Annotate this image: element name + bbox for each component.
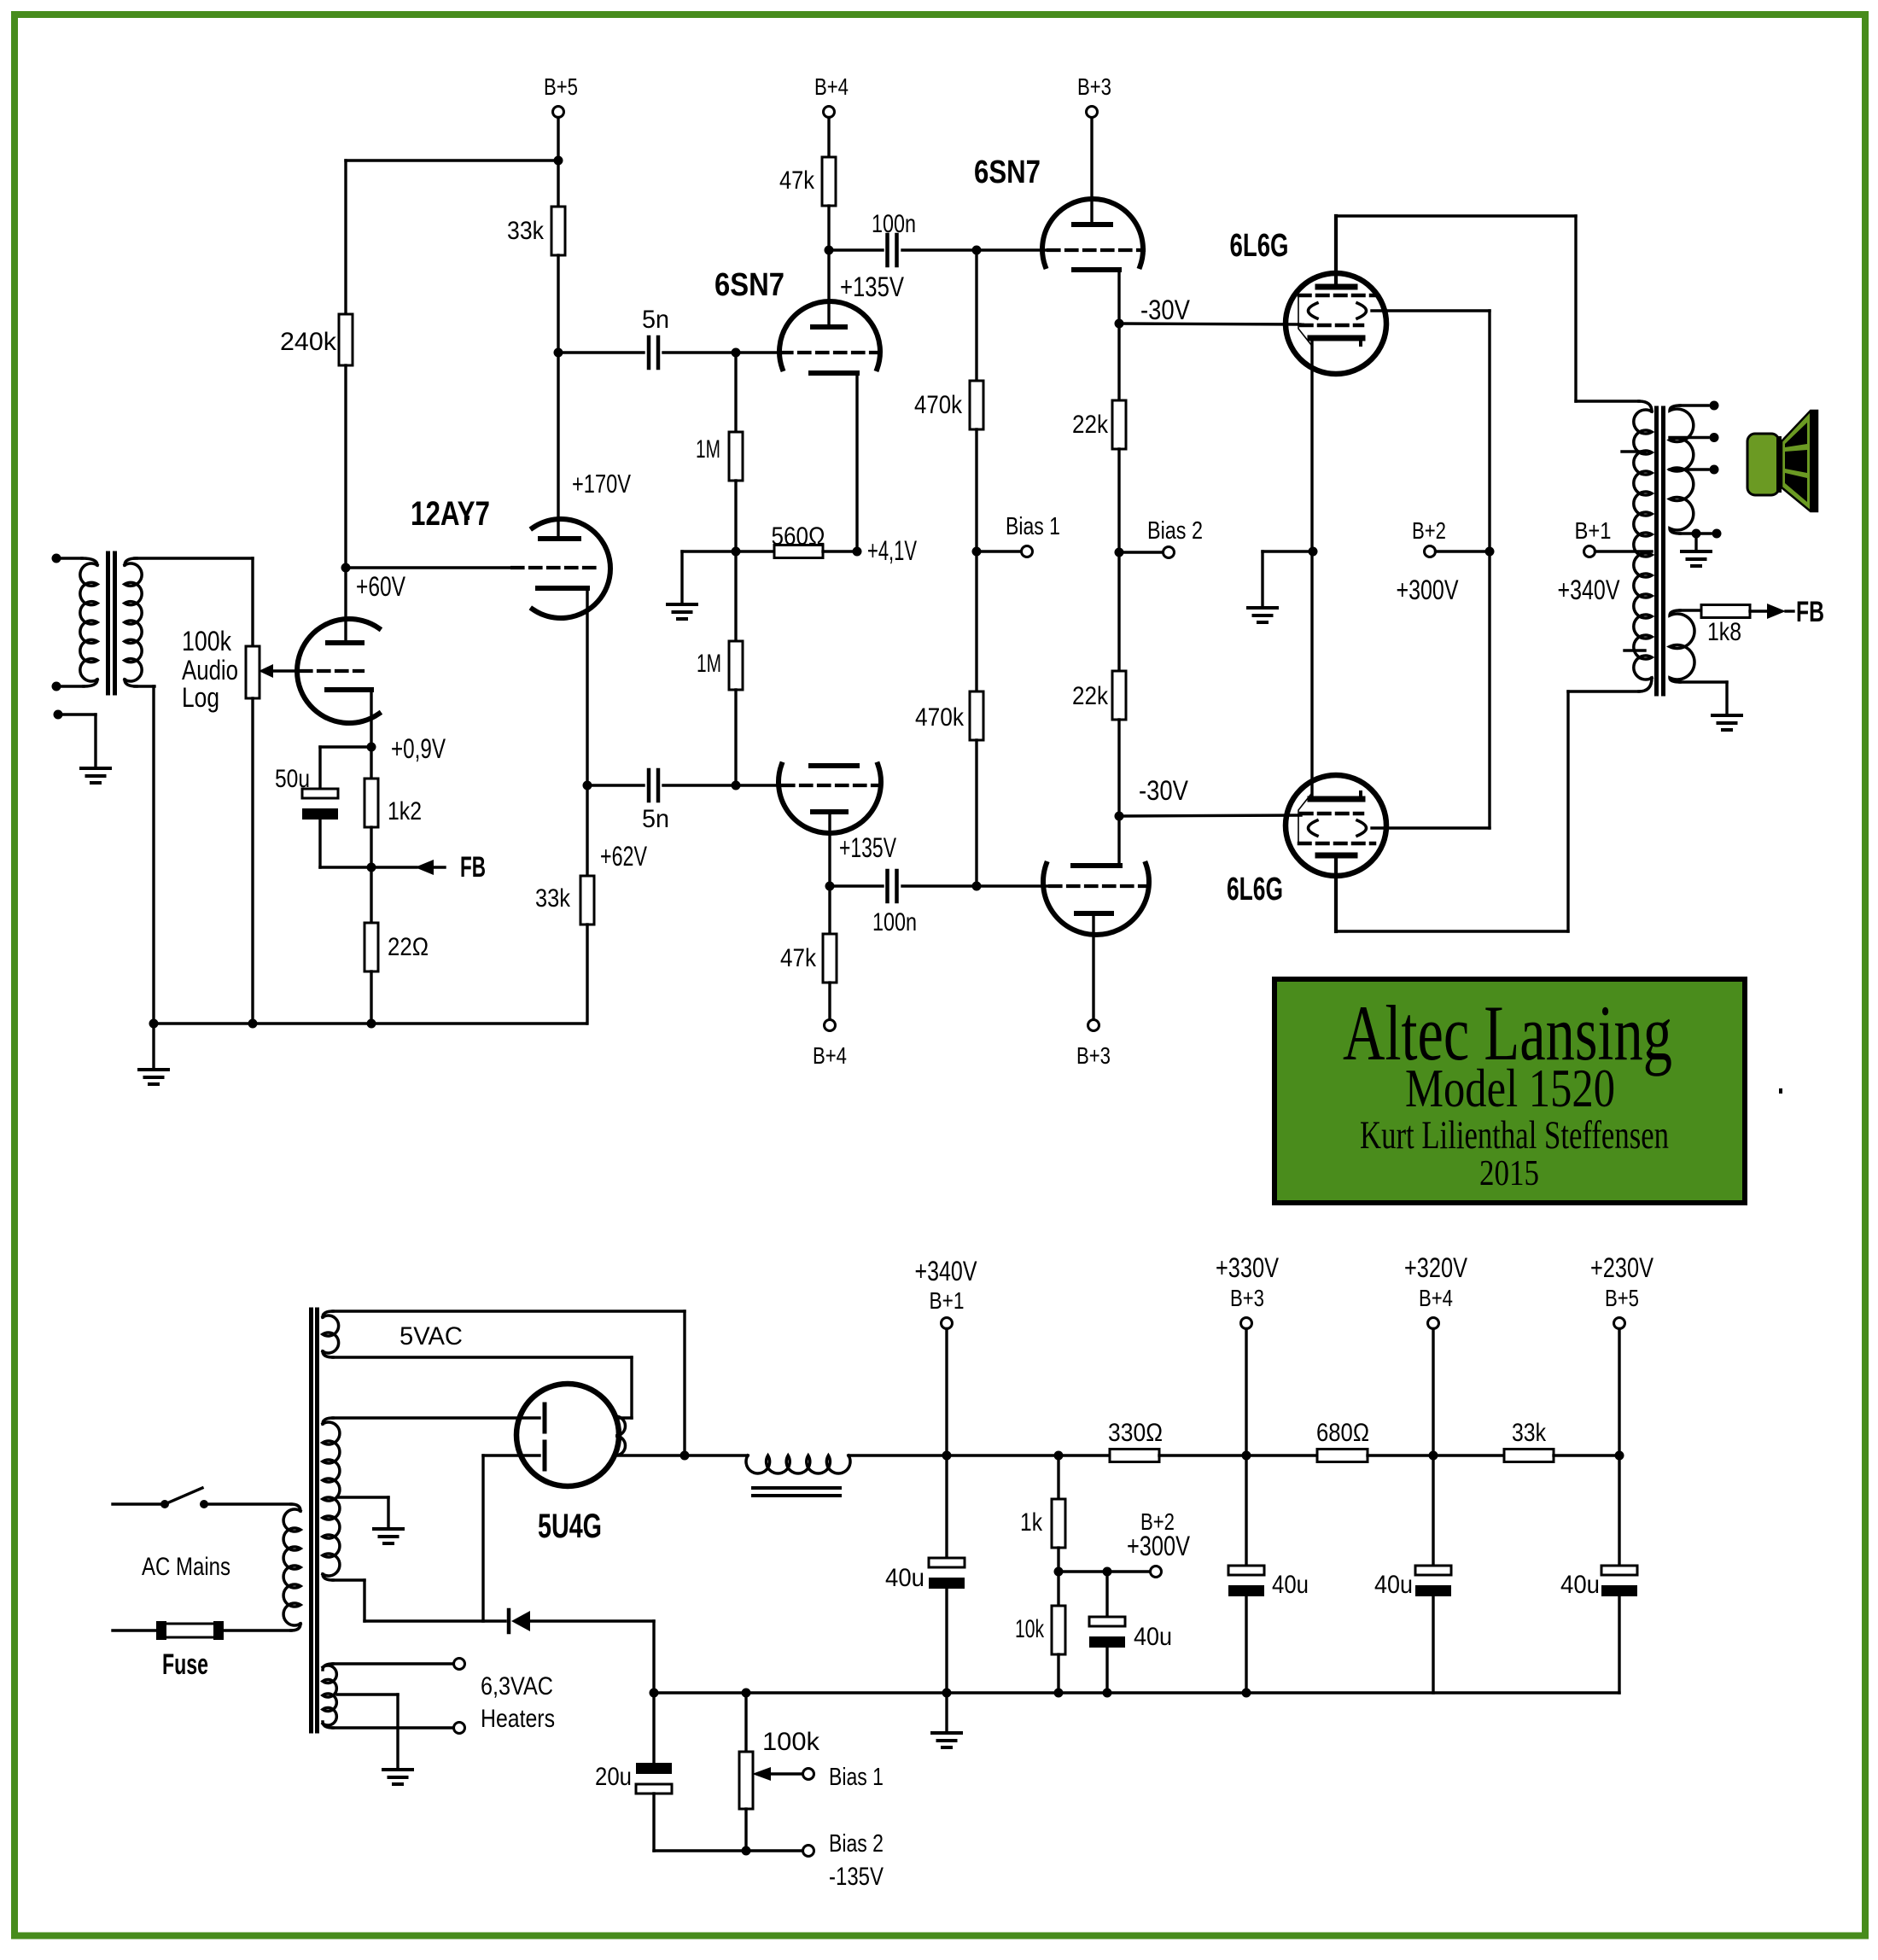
terminal B+3 (bottom) <box>1076 1020 1111 1070</box>
junction pot bottom/bias2 <box>742 1846 751 1856</box>
svg-text:B+3: B+3 <box>1077 73 1111 100</box>
svg-text:6SN7: 6SN7 <box>714 267 784 303</box>
wire cathode to ground <box>1263 551 1313 608</box>
junction plate/47k/100n <box>825 882 835 891</box>
svg-text:Model 1520: Model 1520 <box>1405 1058 1615 1118</box>
svg-text:Bias 2: Bias 2 <box>829 1830 884 1858</box>
junction +4,1V <box>853 547 862 557</box>
svg-text:B+4: B+4 <box>1419 1285 1453 1311</box>
capacitor 5n (lower coupling) <box>587 770 736 801</box>
wire B+ rail 1 <box>947 1454 1110 1456</box>
wire -30V lower <box>1119 815 1301 816</box>
svg-text:680Ω: 680Ω <box>1316 1419 1369 1447</box>
wire grid 6SN7d <box>977 884 1050 887</box>
wire 6L6G top screen tap <box>1372 309 1490 312</box>
junction B+5/rail <box>1615 1451 1624 1461</box>
svg-text:AC Mains: AC Mains <box>142 1553 230 1581</box>
terminal B+1 (PSU) <box>915 1256 978 1455</box>
junction 10k/ground rail <box>1054 1689 1064 1698</box>
capacitor 40u (B+4) <box>1415 1566 1451 1693</box>
ground (FB winding) <box>1712 714 1741 717</box>
svg-text:Bias 1: Bias 1 <box>1006 513 1060 540</box>
PSU ground rail <box>654 1691 1619 1694</box>
resistor 1k8 + FB arrow out <box>1701 604 1793 619</box>
svg-text:33k: 33k <box>1512 1419 1547 1447</box>
resistor 240k <box>339 160 353 568</box>
terminal B+2 (top) <box>1397 517 1490 605</box>
capacitor 40u (B+3) <box>1228 1566 1264 1693</box>
svg-text:12AY7: 12AY7 <box>411 495 490 533</box>
capacitor 40u (B+5) <box>1601 1566 1637 1693</box>
svg-text:5VAC: 5VAC <box>400 1322 463 1350</box>
wire rail to psu ground <box>945 1693 948 1733</box>
ground (preamp rail) <box>139 1068 168 1071</box>
junction pot top rail <box>742 1689 751 1698</box>
svg-text:1k8: 1k8 <box>1707 618 1741 646</box>
junction 5n/1M <box>732 348 741 358</box>
capacitor 100n (upper) <box>829 235 977 265</box>
ground (HV CT) <box>374 1527 403 1531</box>
junction 47k/100n/plate <box>825 246 834 255</box>
svg-text:5n: 5n <box>642 306 669 334</box>
wire to 6SN7b grid <box>736 784 783 786</box>
svg-text:47k: 47k <box>780 944 817 972</box>
pot wiper arrow to 12AY7 grid <box>259 664 300 678</box>
svg-text:2015: 2015 <box>1479 1154 1539 1193</box>
resistor 10k <box>1052 1572 1065 1693</box>
rectifier 5U4G <box>333 1384 626 1486</box>
junction B+5 node <box>554 156 563 166</box>
svg-text:22k: 22k <box>1072 682 1109 710</box>
svg-text:470k: 470k <box>914 391 963 419</box>
wire 5VAC bottom to filament <box>333 1356 632 1358</box>
junction B+4/rail <box>1429 1451 1438 1461</box>
svg-text:40u: 40u <box>1272 1571 1309 1599</box>
wire anode2 drop <box>481 1455 484 1621</box>
ground (input shield) <box>81 767 110 770</box>
svg-text:100k: 100k <box>182 626 232 656</box>
resistor 470k (lower) <box>970 551 983 886</box>
svg-text:Bias 2: Bias 2 <box>1147 517 1203 545</box>
svg-text:B+1: B+1 <box>1575 517 1612 544</box>
ground (PSU) <box>932 1731 961 1735</box>
power transformer 6.3VAC winding <box>323 1664 336 1728</box>
wire rail to ground <box>152 1024 155 1070</box>
junction B+2/screen bus <box>1485 547 1495 557</box>
svg-text:6L6G: 6L6G <box>1230 228 1289 264</box>
resistor 33k (12AY7b plate) <box>551 160 565 353</box>
input transformer T1 primary <box>52 554 98 691</box>
capacitor 50u cathode bypass <box>302 747 371 867</box>
terminal B+4 (top) <box>814 73 849 157</box>
svg-text:Bias 1: Bias 1 <box>829 1764 884 1791</box>
svg-text:22k: 22k <box>1072 411 1109 439</box>
capacitor 100n (lower) <box>830 871 977 901</box>
junction 40u/ground rail <box>942 1689 952 1698</box>
svg-text:B+5: B+5 <box>544 73 578 100</box>
svg-text:B+5: B+5 <box>1605 1285 1639 1311</box>
svg-text:22Ω: 22Ω <box>388 933 429 961</box>
terminal B+5 (PSU) <box>1590 1252 1654 1566</box>
svg-text:20u: 20u <box>595 1763 632 1791</box>
diode (bias rectifier) <box>509 1610 654 1632</box>
svg-text:B+2: B+2 <box>1412 517 1446 544</box>
resistor 22k (upper) <box>1112 324 1126 552</box>
svg-text:-135V: -135V <box>829 1863 884 1891</box>
wire 5n to 6SN7a grid <box>736 351 781 353</box>
svg-text:B+3: B+3 <box>1230 1285 1264 1311</box>
svg-text:+60V: +60V <box>356 571 406 602</box>
svg-text:1k2: 1k2 <box>388 797 422 825</box>
svg-text:47k: 47k <box>779 166 815 195</box>
ground (speaker common) <box>1682 550 1711 553</box>
terminal Bias 2 (top) <box>1119 517 1203 558</box>
svg-text:FB: FB <box>460 851 486 884</box>
svg-text:33k: 33k <box>507 217 545 245</box>
svg-text:100k: 100k <box>762 1728 820 1756</box>
resistor 22k (lower) <box>1112 552 1126 816</box>
svg-text:470k: 470k <box>915 703 965 732</box>
junction cathode ground top <box>1309 547 1318 557</box>
output transformer primary <box>1622 401 1652 691</box>
resistor 1k <box>1052 1455 1065 1572</box>
triode 6SN7b (middle lower) <box>779 764 881 886</box>
junction Bias2 node <box>1115 548 1124 557</box>
triode 12AY7a (input) <box>297 568 379 747</box>
svg-text:-30V: -30V <box>1140 295 1191 325</box>
wire screen bus <box>1488 551 1490 828</box>
terminal B+5 (top) <box>544 73 578 160</box>
junction 100n-lower/grid <box>972 882 982 891</box>
wire B+5 rail to 240k <box>346 159 558 161</box>
svg-text:B+4: B+4 <box>814 73 849 100</box>
capacitor 40u (B+1) <box>929 1455 965 1693</box>
svg-text:+330V: +330V <box>1216 1252 1280 1283</box>
svg-text:Audio: Audio <box>182 655 238 685</box>
svg-text:+340V: +340V <box>1558 575 1621 605</box>
svg-text:+230V: +230V <box>1590 1252 1654 1283</box>
wire filament output <box>615 1454 685 1456</box>
svg-text:40u: 40u <box>1560 1571 1600 1599</box>
ground rail (preamp) <box>154 1022 586 1024</box>
triode 6SN7d (right lower) <box>1043 864 1149 1020</box>
svg-text:Kurt Lilienthal Steffensen: Kurt Lilienthal Steffensen <box>1360 1113 1669 1158</box>
svg-text:B+3: B+3 <box>1076 1042 1111 1069</box>
svg-text:6SN7: 6SN7 <box>974 155 1041 190</box>
power transformer primary <box>283 1504 300 1630</box>
junction B+1/rail <box>942 1451 952 1461</box>
capacitor 40u (B+2) <box>1089 1572 1125 1693</box>
heater terminal A <box>333 1659 465 1670</box>
resistor 470k (upper) <box>970 250 983 551</box>
resistor 680ohm <box>1246 1450 1433 1462</box>
svg-text:100n: 100n <box>872 210 916 238</box>
junction Bias1 node <box>972 547 982 557</box>
svg-text:1M: 1M <box>697 650 721 678</box>
svg-text:6,3VAC: 6,3VAC <box>481 1672 553 1700</box>
junction 560ohm node <box>732 547 741 557</box>
ground (560ohm) <box>668 603 697 606</box>
power transformer HV winding <box>323 1418 340 1580</box>
svg-text:5n: 5n <box>642 805 669 833</box>
wire 5VAC top <box>333 1310 685 1312</box>
wire 6L6G top plate <box>1336 214 1576 217</box>
junction B+2 node (PSU) <box>1054 1567 1064 1577</box>
input shield terminal wire <box>54 710 96 769</box>
junction 33k/5n/plate <box>554 348 563 358</box>
capacitor 5n (upper coupling) <box>558 337 736 368</box>
pentode 6L6G (top) <box>1286 216 1386 551</box>
junction 12AY7b cathode/5n <box>583 781 592 790</box>
svg-text:+62V: +62V <box>600 841 647 872</box>
resistor 47k (lower) <box>823 886 837 1020</box>
svg-text:1k: 1k <box>1020 1508 1043 1537</box>
svg-text:+135V: +135V <box>839 832 896 863</box>
resistor 22ohm <box>365 867 378 1024</box>
junction rail/transformer <box>149 1019 159 1029</box>
HV center tap to ground <box>337 1497 388 1529</box>
wire diode to rail <box>652 1621 655 1693</box>
terminal B+3 (PSU) <box>1216 1252 1280 1566</box>
output transformer secondary with taps <box>1670 401 1722 539</box>
svg-text:240k: 240k <box>280 328 337 356</box>
junction 40uB2/ground rail <box>1103 1689 1112 1698</box>
node +60V junction <box>341 563 351 573</box>
potentiometer 100k (bias) <box>739 1693 753 1851</box>
resistor 47k (upper) <box>822 157 836 250</box>
junction -30V upper <box>1115 319 1124 329</box>
junction rail/22ohm <box>367 1019 376 1029</box>
svg-text:-30V: -30V <box>1139 775 1189 806</box>
resistor 33k (12AY7b cathode) <box>580 785 594 1024</box>
fuse <box>113 1621 291 1640</box>
terminal B+4 (PSU) <box>1404 1252 1468 1566</box>
output transformer core <box>1654 408 1659 694</box>
junction 100n/470k <box>972 246 982 255</box>
wire secondary top to volume pot <box>135 557 253 559</box>
svg-text:40u: 40u <box>1374 1571 1413 1599</box>
terminal Bias 2 (PSU) <box>803 1846 814 1857</box>
junction +0,9V <box>367 743 376 752</box>
title box Altec Lansing Model 1520 <box>1274 979 1745 1203</box>
svg-text:+0,9V: +0,9V <box>391 733 446 764</box>
svg-text:+340V: +340V <box>915 1256 978 1286</box>
wire HV bottom to anode2/diode <box>333 1578 365 1581</box>
triode 6SN7c (right upper) <box>1042 117 1144 324</box>
terminal B+2 (PSU) <box>1059 1508 1191 1578</box>
svg-text:330Ω: 330Ω <box>1108 1419 1163 1447</box>
resistor 1M (upper) <box>729 353 743 551</box>
svg-text:Fuse: Fuse <box>162 1648 208 1681</box>
stray mark right of title box <box>1779 1088 1782 1094</box>
capacitor 20u (bias filter) <box>636 1693 672 1851</box>
heater terminal B <box>333 1723 465 1734</box>
svg-text:40u: 40u <box>1134 1623 1172 1651</box>
junction -30V lower <box>1115 812 1124 821</box>
wire bias bottom <box>654 1849 803 1852</box>
junction 1k top <box>1054 1451 1064 1461</box>
bias pot wiper to Bias 1 terminal <box>752 1767 814 1781</box>
resistor 330ohm <box>1110 1450 1246 1462</box>
junction rail/pot <box>248 1019 258 1029</box>
terminal Bias 1 (top) <box>977 513 1060 557</box>
resistor 33k (PSU) <box>1433 1450 1619 1462</box>
svg-text:+320V: +320V <box>1404 1252 1468 1283</box>
svg-text:10k: 10k <box>1015 1615 1045 1643</box>
svg-text:B+1: B+1 <box>930 1287 965 1314</box>
junction B+3/rail <box>1242 1451 1251 1461</box>
svg-text:B+4: B+4 <box>813 1042 847 1069</box>
wire 22k to 6SN7d cathode <box>1117 816 1120 866</box>
filter choke <box>685 1455 947 1496</box>
input transformer T1 secondary <box>125 558 142 686</box>
svg-text:+300V: +300V <box>1127 1531 1191 1561</box>
output transformer feedback winding <box>1670 610 1727 715</box>
power transformer 5VAC winding <box>323 1311 339 1357</box>
terminal B+1 (top) <box>1558 517 1653 605</box>
svg-text:40u: 40u <box>885 1564 924 1592</box>
svg-text:560Ω: 560Ω <box>772 522 825 551</box>
wire secondary common to ground <box>1694 534 1697 551</box>
input transformer T1 core <box>106 553 110 693</box>
junction 40uB3/ground rail <box>1242 1689 1251 1698</box>
svg-text:FB: FB <box>1796 596 1824 628</box>
svg-text:+170V: +170V <box>572 469 631 499</box>
terminal B+3 (top) <box>1077 73 1111 118</box>
pentode 6L6G (bottom) <box>1286 551 1386 931</box>
power transformer core <box>309 1310 313 1731</box>
junction FB node <box>367 863 376 872</box>
svg-text:50u: 50u <box>275 765 310 793</box>
heater center tap to ground <box>337 1695 398 1770</box>
ground (6L6G cathodes) <box>1248 606 1277 610</box>
svg-text:Log: Log <box>182 682 219 713</box>
svg-text:+4,1V: +4,1V <box>867 535 917 566</box>
svg-text:100n: 100n <box>872 908 917 936</box>
potentiometer 100k Audio Log <box>246 558 260 1024</box>
svg-text:+300V: +300V <box>1397 575 1460 605</box>
triode 12AY7b (second stage) <box>346 353 610 785</box>
svg-text:+135V: +135V <box>840 271 905 302</box>
wire -30V upper <box>1119 324 1303 324</box>
wire 560ohm to ground <box>682 551 736 604</box>
mains switch <box>113 1488 291 1508</box>
svg-text:Heaters: Heaters <box>481 1705 555 1733</box>
wire 6L6G bottom plate <box>1336 930 1568 932</box>
wire secondary bottom down to ground rail <box>135 685 155 687</box>
junction bias/ground rail <box>650 1689 659 1698</box>
resistor 1M (lower) <box>729 551 743 785</box>
wire to 6SN7c grid <box>977 248 1048 251</box>
FB feedback arrow (input) <box>371 860 445 875</box>
terminal B+4 (bottom) <box>813 1020 847 1070</box>
svg-text:1M: 1M <box>696 435 720 464</box>
junction filament/5VAC top <box>680 1451 690 1461</box>
speaker (horn loudspeaker icon) <box>1747 410 1817 512</box>
svg-text:33k: 33k <box>535 884 571 913</box>
ground (heater CT) <box>383 1768 412 1771</box>
junction 40u B+2 tap <box>1103 1567 1112 1577</box>
triode 6SN7a (middle upper) <box>779 250 880 551</box>
stray mark near 12AY7 <box>466 516 469 520</box>
resistor 560ohm <box>736 545 857 558</box>
resistor 1k2 <box>365 747 378 867</box>
svg-text:5U4G: 5U4G <box>538 1508 602 1545</box>
junction 5n lower/grid <box>732 781 741 790</box>
svg-text:6L6G: 6L6G <box>1227 872 1283 907</box>
